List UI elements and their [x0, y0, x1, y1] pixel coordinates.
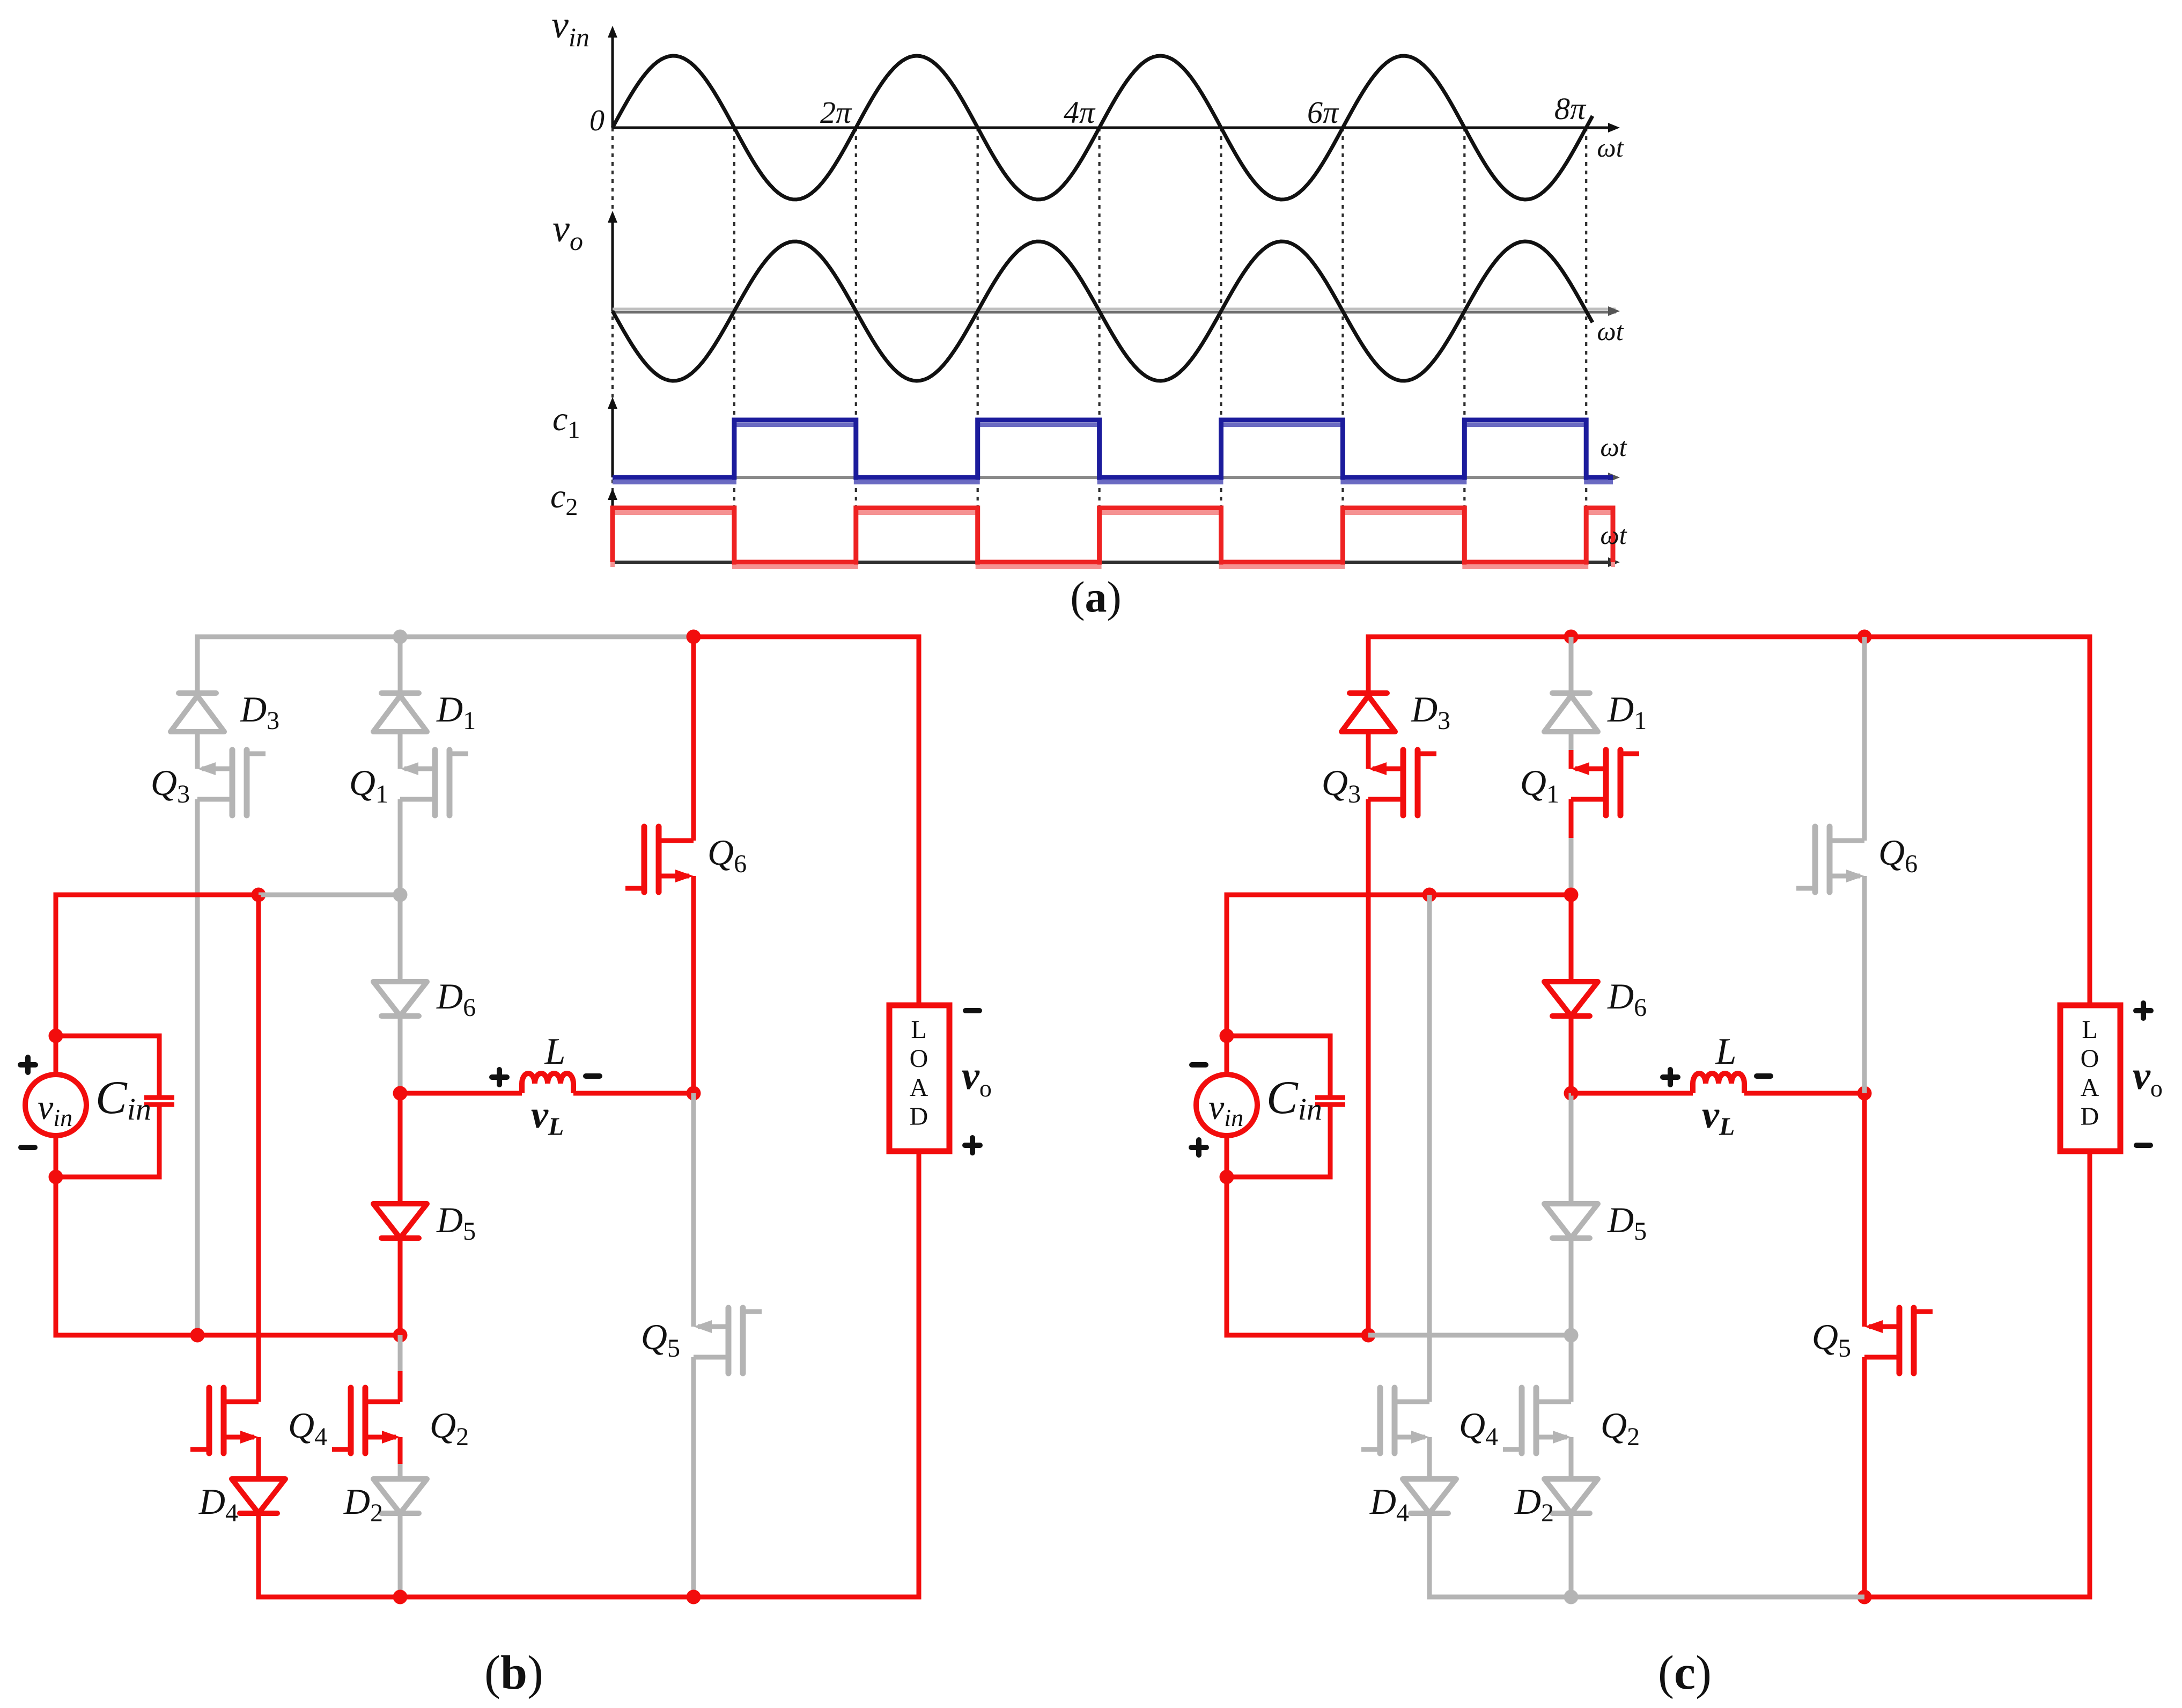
- transistor Q2: [365, 1400, 400, 1404]
- svg-text:A: A: [910, 1073, 928, 1102]
- wire Q6 source to vL node: [1862, 876, 1867, 1093]
- wire Q5 source to rail: [1862, 1357, 1867, 1597]
- wire mid node to Q2 upper: [398, 1335, 403, 1371]
- svg-text:ωt: ωt: [1600, 520, 1627, 550]
- c2 control waveform: [613, 513, 1613, 567]
- label vin +: [1191, 1140, 1206, 1155]
- wire vin branch upper: [54, 893, 58, 1036]
- wire D1 anode: [398, 637, 403, 693]
- node vin / Cin top: [49, 1029, 63, 1043]
- gridline: [1341, 128, 1344, 562]
- circuit (c): [1191, 630, 2163, 1700]
- axis c1 vertical: [611, 402, 614, 477]
- node vL left: [393, 1086, 408, 1101]
- wire bottom rail mid: [400, 1595, 694, 1600]
- wire Q2 to D2: [398, 1464, 403, 1479]
- wire load bottom: [2088, 1151, 2092, 1599]
- load box: [889, 1005, 949, 1151]
- svg-text:Q2: Q2: [1601, 1405, 1640, 1451]
- transistor Q4: [1395, 1400, 1429, 1404]
- wire D5 to mid node: [398, 1237, 403, 1335]
- svg-text:(b): (b): [484, 1646, 543, 1699]
- wire D6 to vL node: [398, 1015, 403, 1093]
- wire load top: [2088, 635, 2092, 1005]
- svg-text:D: D: [2081, 1102, 2099, 1131]
- svg-text:ωt: ωt: [1597, 316, 1624, 346]
- wire Q4 source to D4: [1427, 1437, 1432, 1479]
- node vin / Cin bottom: [1220, 1170, 1234, 1184]
- wire bottom rail right: [1864, 1595, 2092, 1600]
- wire D3 anode: [1366, 635, 1371, 693]
- svg-text:Q3: Q3: [151, 762, 190, 808]
- diode D1: [381, 690, 419, 696]
- wire D3 to Q3: [195, 732, 200, 769]
- wire Cin lower lead: [1328, 1105, 1333, 1177]
- wire top rail right: [694, 635, 922, 639]
- svg-text:D1: D1: [436, 689, 476, 735]
- svg-text:Cin: Cin: [1266, 1072, 1322, 1127]
- node Q4 branch: [1422, 888, 1437, 902]
- wire Q4 drain: [1427, 895, 1432, 1402]
- wire mid row right: [197, 1333, 400, 1338]
- diode D2: [373, 1479, 427, 1513]
- svg-text:Q1: Q1: [1520, 762, 1559, 808]
- wire Cin upper lead: [157, 1034, 162, 1098]
- node mid row / D5: [1564, 1328, 1579, 1343]
- node vL left: [1564, 1086, 1579, 1101]
- svg-text:Q1: Q1: [349, 762, 388, 808]
- gridline: [1585, 128, 1587, 562]
- svg-text:4π: 4π: [1064, 95, 1096, 130]
- wire Q4 source to D4: [256, 1437, 261, 1479]
- capacitor Cin: [144, 1095, 174, 1100]
- transistor Q5: [1869, 1324, 1899, 1329]
- circuit (b): [20, 630, 992, 1700]
- svg-text:Q5: Q5: [1812, 1316, 1851, 1363]
- diode D1: [1552, 690, 1590, 696]
- gridline: [977, 128, 979, 562]
- axis c2 vertical: [611, 494, 614, 562]
- svg-text:O: O: [2081, 1044, 2099, 1073]
- svg-text:(c): (c): [1658, 1646, 1712, 1699]
- svg-text:vin: vin: [38, 1088, 72, 1131]
- transistor Q5: [698, 1324, 728, 1329]
- wire top rail left: [1366, 635, 1865, 639]
- node vL right: [687, 1086, 701, 1101]
- diode D4: [1403, 1479, 1456, 1513]
- wire mid node to Q2 upper: [1569, 1335, 1574, 1371]
- svg-text:Q6: Q6: [707, 832, 747, 878]
- axis v_in vertical: [611, 32, 614, 128]
- wire Q2 to D2: [1569, 1464, 1574, 1479]
- wire D2 to rail: [1569, 1512, 1574, 1597]
- svg-text:D6: D6: [1607, 976, 1647, 1022]
- node Q4 branch: [252, 888, 266, 902]
- svg-text:Q4: Q4: [288, 1405, 327, 1451]
- node rail / D2: [393, 1590, 408, 1604]
- wire load top: [917, 635, 922, 1005]
- wire Q5 source to rail: [691, 1357, 696, 1597]
- node rail / D2: [1564, 1590, 1579, 1604]
- wire vin top lead: [1225, 1036, 1229, 1075]
- diode D2: [1544, 1479, 1598, 1513]
- gridline: [1463, 128, 1465, 562]
- wire bottom rail mid: [1571, 1595, 1864, 1600]
- svg-text:vin: vin: [551, 3, 589, 52]
- wire D4 to rail: [1427, 1512, 1432, 1597]
- v_o sine waveform: [613, 241, 1593, 381]
- svg-text:c1: c1: [552, 400, 580, 443]
- svg-text:ωt: ωt: [1597, 132, 1624, 163]
- svg-text:vo: vo: [962, 1054, 992, 1102]
- node vin / Cin top: [1220, 1029, 1234, 1043]
- transistor Q4: [224, 1400, 259, 1404]
- wire vin bottom lead: [54, 1135, 58, 1177]
- diode D3: [179, 690, 216, 696]
- node vin / Cin bottom: [49, 1170, 63, 1184]
- wire bottom rail left: [256, 1595, 401, 1600]
- svg-text:L: L: [2082, 1015, 2097, 1044]
- svg-text:Q3: Q3: [1322, 762, 1361, 808]
- label vin -: [21, 1145, 35, 1150]
- wire Q1 source: [398, 799, 403, 838]
- inductor L: [522, 1073, 573, 1093]
- wire D2 to rail: [398, 1512, 403, 1597]
- wire D1 to Q1: [1569, 732, 1574, 750]
- svg-text:D3: D3: [240, 689, 279, 735]
- svg-text:c2: c2: [550, 477, 578, 520]
- svg-text:D1: D1: [1607, 689, 1647, 735]
- transistor Q2: [1536, 1400, 1571, 1404]
- wire Q3 source to mid node: [1366, 799, 1371, 1335]
- wire vL row left: [1571, 1091, 1693, 1096]
- svg-text:Q5: Q5: [641, 1316, 680, 1363]
- wire mid row right: [1368, 1333, 1571, 1338]
- transistor Q1: [1575, 767, 1606, 771]
- wire D3 anode: [195, 635, 200, 693]
- wire Cin upper lead: [1328, 1034, 1333, 1098]
- wire mid row left: [54, 1333, 198, 1338]
- node mid row / D5: [393, 1328, 408, 1343]
- c1 control waveform: [613, 425, 1613, 482]
- svg-text:D6: D6: [436, 976, 476, 1022]
- wire vL node to Q5: [1862, 1093, 1867, 1327]
- wire vin top lead: [54, 1036, 58, 1075]
- transistor Q1: [404, 767, 435, 771]
- node Q1 / D6 / node row: [393, 888, 408, 902]
- diode D4: [232, 1479, 285, 1513]
- wire mid node to Q2 lower: [398, 1371, 403, 1402]
- source vin: [1196, 1074, 1257, 1136]
- wire D4 to rail: [256, 1512, 261, 1597]
- wire node row left: [1225, 893, 1430, 897]
- gridline: [855, 128, 857, 562]
- svg-text:D4: D4: [1369, 1481, 1409, 1527]
- transistor Q3: [202, 767, 232, 771]
- wire vL row right: [1744, 1091, 1864, 1096]
- svg-text:2π: 2π: [820, 95, 852, 130]
- wire vL row right: [573, 1091, 694, 1096]
- wire vin branch upper: [1225, 893, 1229, 1036]
- diode D6: [373, 982, 427, 1016]
- capacitor Cin: [1315, 1095, 1345, 1100]
- gridline: [611, 128, 614, 562]
- axis c1 horizontal: [613, 476, 1616, 479]
- axis v_o horizontal: [613, 308, 1616, 311]
- node Q3 source / mid row: [190, 1328, 205, 1343]
- svg-text:vL: vL: [1702, 1093, 1735, 1141]
- wire vL node to Q5: [691, 1093, 696, 1327]
- svg-text:vo: vo: [2133, 1054, 2163, 1102]
- wire Q2 source: [1569, 1437, 1574, 1464]
- svg-text:vL: vL: [531, 1093, 564, 1141]
- label vL -: [1757, 1073, 1771, 1079]
- label vL +: [492, 1070, 507, 1085]
- wire bottom rail right: [694, 1595, 922, 1600]
- svg-text:0: 0: [589, 104, 605, 137]
- svg-text:D: D: [910, 1102, 928, 1131]
- svg-text:ωt: ωt: [1600, 432, 1627, 462]
- wire Cin top: [1227, 1034, 1333, 1039]
- diode D6: [1544, 982, 1598, 1016]
- wire top rail left: [195, 635, 694, 639]
- label vL +: [1663, 1070, 1678, 1085]
- gridline: [1099, 128, 1101, 562]
- wire D6 anode: [398, 895, 403, 982]
- node Q3 source / mid row: [1361, 1328, 1376, 1343]
- wire vL node to D5: [398, 1093, 403, 1204]
- svg-text:8π: 8π: [1554, 91, 1587, 126]
- gridline: [1220, 128, 1222, 562]
- wire mid node to Q2 lower: [1569, 1371, 1574, 1402]
- load box: [2060, 1005, 2120, 1151]
- label vo +: [965, 1138, 980, 1153]
- svg-text:Q2: Q2: [430, 1405, 469, 1451]
- wire Cin bottom: [56, 1175, 162, 1180]
- wire Cin top: [56, 1034, 162, 1039]
- transistor Q6: [659, 838, 694, 843]
- node rail / Q5: [1857, 1590, 1872, 1604]
- label vo -: [965, 1008, 979, 1013]
- wire Q1 source to node row: [398, 838, 403, 895]
- svg-text:vo: vo: [552, 207, 583, 256]
- diode D5: [1544, 1204, 1598, 1238]
- diode D5: [373, 1204, 427, 1238]
- label vin +: [20, 1057, 35, 1072]
- wire Cin bottom: [1227, 1175, 1333, 1180]
- svg-text:L: L: [544, 1031, 566, 1072]
- source vin: [25, 1074, 86, 1136]
- wire vL node to D5: [1569, 1093, 1574, 1204]
- wire Q4 drain: [256, 895, 261, 1402]
- svg-text:D4: D4: [198, 1481, 238, 1527]
- wire node row left: [54, 893, 259, 897]
- svg-text:Cin: Cin: [95, 1072, 151, 1127]
- wire vin to mid row: [1225, 1177, 1229, 1335]
- wire D6 to vL node: [1569, 1015, 1574, 1093]
- wire Q1 source to node row: [1569, 838, 1574, 895]
- transistor Q6: [1830, 838, 1864, 843]
- svg-text:L: L: [1715, 1031, 1737, 1072]
- transistor Q3: [1373, 767, 1403, 771]
- wire Q6 drain: [1862, 637, 1867, 841]
- diode D3: [1350, 690, 1387, 696]
- wire D1 to Q1 lower: [398, 750, 403, 769]
- svg-text:D5: D5: [436, 1199, 476, 1246]
- node top rail / Q6 branch: [687, 630, 701, 644]
- node top rail / Q6 branch: [1857, 630, 1872, 644]
- svg-text:A: A: [2081, 1073, 2099, 1102]
- wire D5 to mid node: [1569, 1237, 1574, 1335]
- label vL -: [586, 1073, 600, 1079]
- node top rail / D1 branch: [1564, 630, 1579, 644]
- wire vin to mid row: [54, 1177, 58, 1335]
- wire Q6 drain: [691, 637, 696, 841]
- wire mid row left: [1225, 1333, 1369, 1338]
- svg-text:L: L: [911, 1015, 926, 1044]
- gridline: [733, 128, 735, 562]
- wire Cin lower lead: [157, 1105, 162, 1177]
- node rail / Q5: [687, 1590, 701, 1604]
- svg-text:Q4: Q4: [1459, 1405, 1498, 1451]
- wire Q1 source: [1569, 799, 1574, 838]
- wire vin bottom lead: [1225, 1135, 1229, 1177]
- svg-text:vin: vin: [1208, 1088, 1243, 1131]
- wire top rail right: [1864, 635, 2092, 639]
- axis v_o vertical: [611, 217, 614, 311]
- label vo +: [2136, 1003, 2151, 1018]
- wire D6 anode: [1569, 895, 1574, 982]
- node Q1 / D6 / node row: [1564, 888, 1579, 902]
- node vL right: [1857, 1086, 1872, 1101]
- wire Q3 source to mid node: [195, 799, 200, 1335]
- wire D3 to Q3: [1366, 732, 1371, 769]
- wire D1 to Q1: [398, 732, 403, 750]
- svg-text:D3: D3: [1411, 689, 1450, 735]
- svg-text:D5: D5: [1607, 1199, 1647, 1246]
- wire load bottom: [917, 1151, 922, 1599]
- label vo -: [2136, 1143, 2150, 1148]
- node top rail / D1 branch: [393, 630, 408, 644]
- svg-text:6π: 6π: [1307, 95, 1339, 130]
- svg-text:O: O: [910, 1044, 928, 1073]
- label vin -: [1192, 1062, 1206, 1067]
- svg-text:Q6: Q6: [1878, 832, 1918, 878]
- wire D1 anode: [1569, 637, 1574, 693]
- wire node row right: [259, 893, 400, 897]
- wire Q2 source: [398, 1437, 403, 1464]
- inductor L: [1693, 1073, 1744, 1093]
- wire bottom rail left: [1427, 1595, 1572, 1600]
- wire Q6 source to vL node: [691, 876, 696, 1093]
- svg-text:(a): (a): [1070, 572, 1122, 621]
- axis v_in horizontal: [613, 127, 1616, 129]
- wire D1 to Q1 lower: [1569, 750, 1574, 769]
- wire node row right: [1429, 893, 1571, 897]
- wire vL row left: [400, 1091, 522, 1096]
- v_in sine waveform: [613, 56, 1593, 200]
- axis c2 horizontal: [613, 561, 1616, 564]
